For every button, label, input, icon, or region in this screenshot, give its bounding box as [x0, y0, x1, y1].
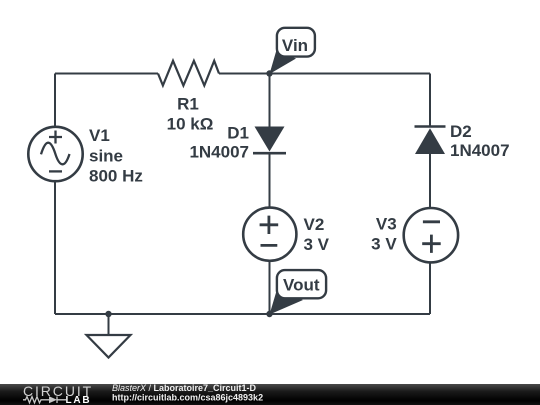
svg-text:V3: V3 [376, 215, 397, 234]
svg-text:800 Hz: 800 Hz [89, 166, 143, 185]
svg-text:V1: V1 [89, 126, 110, 145]
svg-text:BlasterX / Laboratoire7_Circui: BlasterX / Laboratoire7_Circuit1-D [112, 383, 257, 393]
svg-text:V2: V2 [304, 215, 325, 234]
svg-text:http://circuitlab.com/csa86jc4: http://circuitlab.com/csa86jc4893k2 [112, 393, 263, 403]
svg-text:sine: sine [89, 147, 123, 166]
svg-text:D1: D1 [227, 123, 249, 142]
svg-text:1N4007: 1N4007 [450, 141, 510, 160]
svg-text:1N4007: 1N4007 [189, 143, 249, 162]
svg-text:Vout: Vout [283, 276, 320, 295]
svg-text:R1: R1 [177, 94, 199, 113]
svg-text:3 V: 3 V [304, 235, 330, 254]
svg-text:LAB: LAB [66, 395, 92, 405]
svg-text:3 V: 3 V [371, 235, 397, 254]
svg-text:Vin: Vin [282, 36, 308, 55]
svg-text:D2: D2 [450, 122, 472, 141]
svg-text:10 kΩ: 10 kΩ [167, 115, 214, 134]
